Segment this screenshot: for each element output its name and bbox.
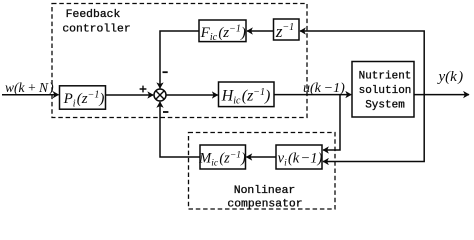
- block Z1: z-1 delay: [274, 19, 300, 40]
- label: plus sign at summing junction: [140, 86, 147, 93]
- summing junction S1: [154, 89, 166, 101]
- wire: H1 to plant G1: [274, 94, 351, 96]
- svg-text:u(k −1): u(k −1): [303, 81, 345, 96]
- wire: feedback branch down from output node to V1 lower input: [323, 95, 424, 162]
- block H1: Hic(z-1): [219, 82, 275, 107]
- wire: feedback branch up from output node to Z1: [300, 31, 424, 95]
- dashed box: Nonlinear compensator: [189, 133, 336, 210]
- block F1: Fic(z-1): [199, 20, 246, 42]
- block G1: Nutrient solution System: [352, 62, 414, 118]
- block M1: Mic(z-1): [200, 145, 246, 169]
- block P1: Pi(z-1): [60, 86, 106, 109]
- svg-text:System: System: [365, 100, 405, 112]
- svg-text:y(k ): y(k ): [437, 69, 464, 85]
- wire: P1 to summing junction: [106, 94, 154, 96]
- wire: branch from u(k-1) node down to V1 upper input: [323, 95, 340, 150]
- wire: input w(k+N) to P1: [2, 94, 59, 96]
- svg-text:solution: solution: [359, 85, 412, 97]
- wire: plant G1 output to y(k): [414, 94, 469, 96]
- svg-text:Feedback: Feedback: [66, 9, 121, 21]
- svg-text:w(k + N ): w(k + N ): [5, 80, 54, 95]
- wire: M1 up to summing junction (minus): [160, 102, 200, 157]
- wire: summing junction to H1: [166, 94, 218, 96]
- svg-text:Nutrient: Nutrient: [359, 71, 412, 83]
- label: minus sign top of summing junction: [163, 71, 168, 73]
- svg-text:Nonlinear: Nonlinear: [234, 185, 296, 197]
- block V1: vi(k-1): [276, 145, 322, 169]
- label: minus sign bottom of summing junction: [163, 111, 168, 113]
- wire: F1 down to summing junction (minus): [160, 31, 199, 88]
- svg-text:compensator: compensator: [227, 198, 302, 210]
- dashed box: Feedback controller: [52, 4, 307, 118]
- svg-text:controller: controller: [62, 23, 130, 35]
- wire: Z1 to F1: [247, 30, 274, 32]
- wire: V1 to M1: [246, 156, 276, 158]
